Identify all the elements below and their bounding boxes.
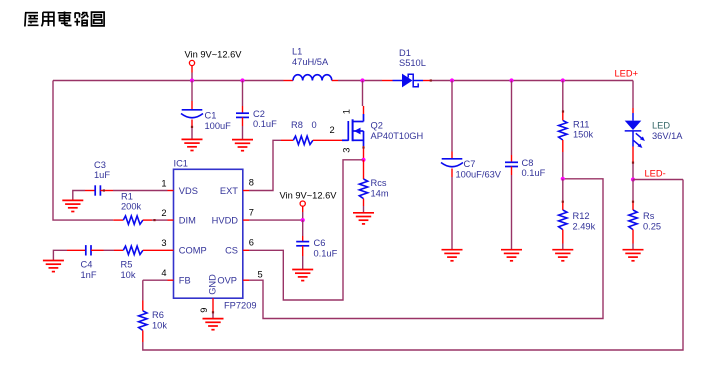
svg-text:4: 4: [161, 268, 166, 278]
svg-text:LED: LED: [652, 121, 670, 131]
ground C8: [501, 250, 522, 261]
svg-text:OVP: OVP: [217, 276, 237, 286]
wire R5 right lead: [143, 249, 168, 251]
wire Rs top lead: [632, 200, 634, 210]
wire rail to C1: [191, 81, 193, 102]
svg-text:1nF: 1nF: [81, 270, 97, 280]
wire R8 left lead: [281, 139, 293, 141]
svg-text:7: 7: [249, 207, 254, 217]
svg-text:C4: C4: [81, 260, 93, 270]
wire R12 bottom lead: [562, 230, 564, 244]
junction Vin rail: [190, 78, 194, 82]
capacitor C1 100uF: [181, 110, 203, 118]
svg-text:C6: C6: [314, 238, 326, 248]
terminal Vin: [189, 60, 194, 65]
svg-text:COMP: COMP: [179, 246, 207, 256]
op-amp U1 IC1 FP7209 body: [174, 169, 243, 298]
svg-text:14m: 14m: [371, 188, 389, 198]
junction R11 R12 OVP: [561, 177, 565, 181]
wire Vin to rail: [191, 73, 193, 81]
svg-text:9: 9: [199, 308, 209, 313]
wire rail to C8: [511, 81, 513, 156]
ground C3: [62, 200, 83, 211]
capacitor C4 1nF: [86, 245, 91, 255]
wire rail to R11: [562, 81, 564, 112]
wire C8 bottom lead: [511, 167, 513, 176]
svg-text:Q2: Q2: [371, 121, 383, 131]
svg-text:LED+: LED+: [615, 69, 639, 79]
svg-text:R8: R8: [291, 120, 303, 130]
wire C4 right lead: [91, 249, 104, 251]
terminal Vin 2: [300, 201, 305, 206]
resistor R8 0: [293, 136, 313, 144]
wire Rcs bottom lead: [363, 199, 365, 206]
transistor Q2 AP40T10GH: [342, 114, 364, 146]
resistor Rs 0.25: [629, 210, 637, 230]
wire Rcs to ground: [363, 206, 365, 213]
wire R11 top lead: [562, 111, 564, 120]
wire C4 to R5: [104, 249, 115, 251]
wire rail L1 to D1: [338, 80, 382, 82]
ground C6: [292, 270, 313, 281]
wire C3 to pin 1: [113, 190, 168, 192]
wire R11 to divider node: [562, 152, 564, 179]
wire C3 right lead: [100, 190, 113, 192]
svg-text:FB: FB: [179, 276, 191, 286]
wire C2 to ground: [242, 126, 244, 140]
wire LED anode stub: [632, 108, 634, 113]
title 應用電路圖: [25, 12, 104, 27]
wire C6 to ground: [302, 256, 304, 270]
wire R8 to gate: [313, 139, 342, 141]
wire R6 bottom lead: [142, 330, 144, 342]
svg-text:3: 3: [342, 148, 352, 153]
ground Rs: [623, 250, 644, 261]
svg-text:L1: L1: [292, 47, 302, 57]
svg-text:S510L: S510L: [399, 58, 426, 68]
svg-text:Rcs: Rcs: [371, 178, 387, 188]
wire Vin2 stub: [302, 206, 304, 212]
wire C2 top lead: [242, 106, 244, 113]
wire R12 to ground: [562, 244, 564, 250]
svg-text:Vin 9V~12.6V: Vin 9V~12.6V: [185, 49, 243, 59]
resistor Rcs 14m: [359, 179, 367, 199]
wire node to R12: [562, 179, 564, 201]
wire Rs to ground: [632, 244, 634, 250]
wire pin 4 stub: [168, 279, 174, 281]
svg-text:DIM: DIM: [179, 216, 196, 226]
wire pin 2 stub: [168, 219, 174, 221]
wire C1 top lead: [191, 101, 193, 110]
svg-text:100uF: 100uF: [205, 121, 232, 131]
svg-text:LED-: LED-: [645, 168, 666, 178]
svg-text:6: 6: [249, 238, 254, 248]
svg-text:10k: 10k: [121, 270, 136, 280]
wire left rail to R1: [53, 81, 113, 221]
ground C2: [232, 140, 253, 151]
pin end markers: [191, 126, 193, 128]
wire R1 right lead: [143, 219, 152, 221]
ground C7: [442, 250, 463, 261]
svg-text:R1: R1: [121, 191, 133, 201]
svg-text:5: 5: [258, 269, 263, 279]
svg-text:IC1: IC1: [174, 158, 188, 168]
wire pin 9 stub: [212, 298, 214, 312]
wire pin 5 stub: [243, 279, 249, 281]
resistor R12 2.49k: [559, 210, 567, 230]
svg-text:0.1uF: 0.1uF: [314, 249, 338, 259]
capacitor C6 0.1uF: [296, 242, 309, 246]
wire HVDD to Vin2: [249, 219, 303, 221]
svg-text:Vin 9V~12.6V: Vin 9V~12.6V: [280, 190, 338, 200]
wire D1 cathode lead: [423, 80, 431, 82]
wire R1 left lead: [113, 219, 123, 221]
svg-text:0.25: 0.25: [643, 222, 661, 232]
wire C8 to ground: [511, 175, 513, 250]
wire C7 bottom lead: [451, 169, 453, 178]
diode LED 36V/1A: [625, 113, 645, 148]
svg-text:CS: CS: [225, 246, 238, 256]
svg-text:FP7209: FP7209: [224, 300, 257, 310]
wire C4 left lead: [67, 249, 86, 251]
svg-text:VDS: VDS: [179, 186, 198, 196]
svg-text:36V/1A: 36V/1A: [652, 131, 683, 141]
svg-text:200k: 200k: [121, 202, 142, 212]
wire pin 1 stub: [168, 190, 174, 192]
svg-text:HVDD: HVDD: [212, 216, 239, 226]
wire C3 ground stub: [73, 191, 85, 201]
resistor R6 10k: [139, 311, 147, 331]
junction LED-: [631, 177, 635, 181]
wire R12 top lead: [562, 200, 564, 210]
wire C8 top lead: [511, 155, 513, 162]
svg-text:R5: R5: [121, 260, 133, 270]
wire LED- to Rs: [632, 180, 634, 201]
svg-text:100uF/63V: 100uF/63V: [456, 169, 502, 179]
wire R11 bottom lead: [562, 140, 564, 152]
svg-text:2: 2: [330, 125, 335, 135]
wire C3 left lead: [85, 190, 95, 192]
svg-text:47uH/5A: 47uH/5A: [292, 57, 329, 67]
junction C7 rail: [450, 78, 454, 82]
wire C6 top lead: [302, 236, 304, 242]
wire C7 to ground: [451, 177, 453, 250]
wire rail D1 to LED+: [431, 80, 634, 82]
wire down to R6: [142, 280, 144, 300]
svg-text:8: 8: [249, 178, 254, 188]
capacitor C2 0.1uF: [236, 113, 249, 117]
svg-text:EXT: EXT: [220, 186, 238, 196]
svg-text:150k: 150k: [573, 130, 594, 140]
inductor L1: [293, 75, 332, 81]
wire LED cathode lead: [632, 147, 634, 164]
wire L1 right lead: [332, 80, 338, 82]
wire FB return loop bottom: [143, 180, 683, 351]
wire LED+ down: [632, 81, 634, 109]
svg-text:2: 2: [161, 208, 166, 218]
junction Q2 drain rail: [360, 78, 364, 82]
ground C1: [182, 139, 203, 150]
wire source to Rcs: [363, 160, 365, 179]
wire Q2 source lead: [363, 146, 365, 160]
capacitor C7 100uF/63V: [441, 159, 463, 167]
svg-text:1uF: 1uF: [94, 170, 110, 180]
svg-text:1: 1: [342, 109, 352, 114]
wire rail to C7: [451, 81, 453, 152]
wire Vin2 to HVDD: [302, 212, 304, 220]
svg-text:C3: C3: [94, 160, 106, 170]
svg-text:0.1uF: 0.1uF: [522, 168, 546, 178]
wire C7 top lead: [451, 152, 453, 159]
wire R1 to pin 2: [152, 219, 168, 221]
wire R5 left lead: [114, 249, 123, 251]
svg-text:GND: GND: [207, 274, 217, 295]
svg-text:0.1uF: 0.1uF: [253, 119, 277, 129]
wire top rail left: [53, 80, 284, 82]
svg-text:R6: R6: [152, 310, 164, 320]
wire rail to C2: [242, 81, 244, 107]
resistor R1 200k: [123, 216, 143, 224]
capacitor C8 0.1uF: [505, 162, 518, 166]
wire Q2 drain lead: [363, 106, 365, 114]
junction HVDD: [301, 218, 305, 222]
wire CS sense route: [249, 160, 363, 300]
svg-text:AP40T10GH: AP40T10GH: [371, 131, 424, 141]
wire Rs bottom lead: [632, 230, 634, 244]
svg-text:C2: C2: [253, 109, 265, 119]
resistor R11 150k: [559, 120, 567, 140]
svg-text:D1: D1: [399, 48, 411, 58]
wire EXT to R8: [249, 140, 281, 190]
svg-text:R11: R11: [573, 119, 589, 129]
ground C4: [43, 261, 64, 272]
svg-text:R12: R12: [573, 211, 590, 221]
ground IC pin 9: [203, 319, 224, 330]
wire pin 3 stub: [168, 249, 174, 251]
wire C1 to ground: [191, 128, 193, 139]
wire C4 ground stub: [53, 250, 67, 260]
wire pin 7 stub: [243, 219, 249, 221]
wire LED- rail: [633, 179, 683, 181]
wire D1 anode lead: [382, 80, 393, 82]
capacitor C3 1uF: [95, 185, 100, 195]
wire rail to Q2 drain: [362, 81, 364, 107]
wire C1 bottom lead: [191, 120, 193, 129]
wire C2 bottom lead: [242, 117, 244, 126]
junction Q2 source: [361, 158, 365, 162]
svg-text:10k: 10k: [152, 320, 167, 330]
wire LED to LED- node: [632, 163, 634, 180]
svg-text:C7: C7: [464, 159, 476, 169]
junction C2 rail: [240, 78, 244, 82]
wire pin 9 to ground: [212, 312, 214, 319]
diode D1 S510L: [393, 74, 424, 88]
wire pin 8 stub: [243, 190, 249, 192]
svg-text:1: 1: [161, 178, 166, 188]
svg-text:3: 3: [161, 238, 166, 248]
junction C8 rail: [509, 78, 513, 82]
wire L1 left lead: [284, 80, 294, 82]
wire HVDD to C6: [302, 220, 304, 236]
wire C6 bottom lead: [302, 246, 304, 256]
resistor R5 10k: [123, 246, 143, 254]
svg-text:C8: C8: [522, 158, 534, 168]
wire Vin stub: [191, 66, 193, 73]
ground R12: [552, 250, 573, 261]
svg-text:C1: C1: [205, 111, 217, 121]
wire pin 4 to R6 corner: [143, 279, 168, 281]
ground Rcs: [353, 213, 374, 224]
junction R11 rail: [561, 78, 565, 82]
svg-text:2.49k: 2.49k: [573, 222, 596, 232]
wire OVP route: [249, 179, 603, 319]
svg-text:Rs: Rs: [643, 211, 655, 221]
wire R6 top lead: [142, 301, 144, 311]
wire pin 6 stub: [243, 249, 249, 251]
svg-text:0: 0: [312, 120, 317, 130]
